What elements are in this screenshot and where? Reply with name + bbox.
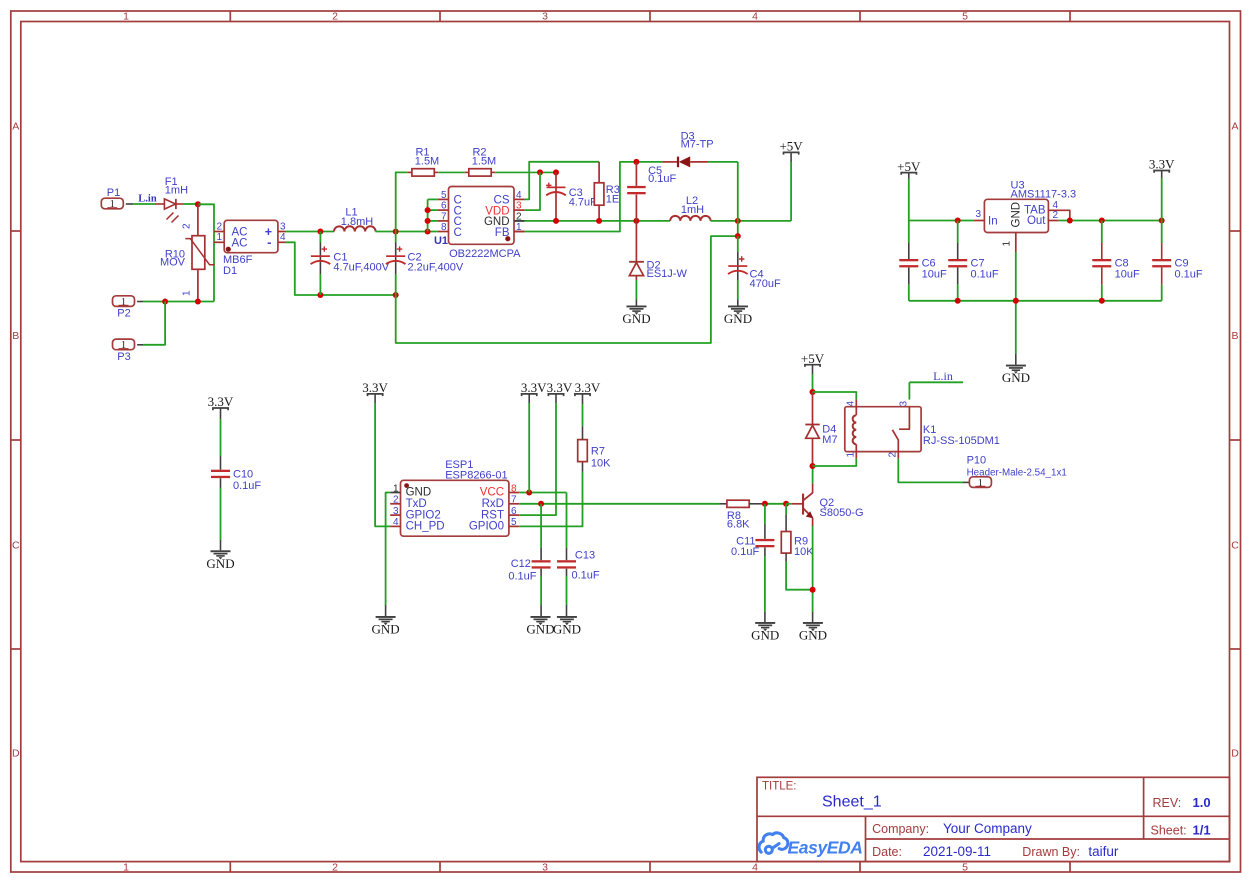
svg-text:3: 3	[975, 209, 981, 220]
svg-text:0.1uF: 0.1uF	[572, 570, 600, 582]
svg-text:4: 4	[845, 401, 856, 407]
svg-text:K1: K1	[923, 424, 936, 436]
svg-text:GND: GND	[751, 628, 779, 643]
svg-text:GPIO0: GPIO0	[469, 521, 504, 533]
svg-text:D: D	[12, 748, 20, 760]
svg-text:2021-09-11: 2021-09-11	[923, 844, 991, 859]
svg-text:Sheet_1: Sheet_1	[822, 794, 882, 811]
svg-text:GND: GND	[724, 311, 752, 326]
svg-text:3: 3	[542, 861, 548, 873]
svg-text:C13: C13	[575, 550, 595, 562]
svg-text:1: 1	[845, 452, 856, 458]
svg-text:10K: 10K	[794, 546, 814, 558]
svg-text:-: -	[267, 234, 271, 249]
svg-text:2: 2	[1053, 210, 1059, 221]
svg-text:M7: M7	[822, 434, 837, 446]
svg-text:GND: GND	[1002, 370, 1030, 385]
svg-text:2: 2	[216, 221, 222, 232]
svg-text:7: 7	[511, 495, 517, 506]
svg-text:4: 4	[516, 190, 522, 201]
svg-text:3: 3	[393, 506, 399, 517]
svg-text:P1: P1	[107, 187, 120, 199]
svg-text:5: 5	[511, 517, 517, 528]
svg-text:MOV: MOV	[160, 257, 186, 269]
svg-text:R7: R7	[591, 446, 605, 458]
svg-text:A: A	[1231, 121, 1238, 133]
svg-text:5: 5	[441, 190, 447, 201]
svg-text:1.5M: 1.5M	[415, 156, 439, 168]
svg-text:ES1J-W: ES1J-W	[647, 268, 688, 280]
svg-text:C10: C10	[233, 469, 253, 481]
svg-text:1: 1	[182, 290, 193, 296]
svg-text:GND: GND	[799, 628, 827, 643]
svg-text:GND: GND	[526, 622, 554, 637]
svg-text:2: 2	[332, 861, 338, 873]
svg-text:Sheet:: Sheet:	[1151, 824, 1187, 838]
svg-text:S8050-G: S8050-G	[820, 507, 864, 519]
svg-text:1: 1	[1002, 241, 1013, 247]
svg-text:GPIO2: GPIO2	[406, 509, 441, 521]
svg-text:GND: GND	[553, 622, 581, 637]
svg-text:P3: P3	[117, 351, 130, 363]
svg-text:1.5M: 1.5M	[472, 156, 496, 168]
svg-text:4.7uF: 4.7uF	[569, 196, 597, 208]
svg-text:0.1uF: 0.1uF	[508, 571, 536, 583]
svg-text:Company:: Company:	[872, 822, 929, 836]
svg-text:6: 6	[441, 201, 447, 212]
svg-text:A: A	[12, 121, 19, 133]
svg-text:RST: RST	[481, 509, 504, 521]
svg-text:ESP8266-01: ESP8266-01	[445, 469, 507, 481]
svg-text:1: 1	[123, 861, 129, 873]
svg-text:8: 8	[441, 222, 447, 233]
svg-text:5: 5	[962, 11, 968, 23]
svg-text:2: 2	[332, 11, 338, 23]
svg-text:C12: C12	[511, 558, 531, 570]
svg-text:4.7uF,400V: 4.7uF,400V	[333, 261, 389, 273]
svg-text:In: In	[988, 215, 998, 227]
svg-text:0.1uF: 0.1uF	[233, 480, 261, 492]
svg-text:0.1uF: 0.1uF	[971, 268, 999, 280]
svg-text:1.0: 1.0	[1193, 795, 1211, 810]
svg-text:10K: 10K	[591, 458, 611, 470]
svg-text:1: 1	[393, 483, 399, 494]
svg-text:D1: D1	[223, 265, 237, 277]
svg-text:4: 4	[752, 861, 758, 873]
svg-text:0.1uF: 0.1uF	[731, 546, 759, 558]
svg-text:taifur: taifur	[1088, 844, 1119, 859]
svg-text:+5V: +5V	[779, 139, 803, 154]
svg-text:B: B	[12, 330, 19, 342]
svg-text:+5V: +5V	[897, 159, 921, 174]
svg-text:0.1uF: 0.1uF	[648, 173, 676, 185]
svg-text:3: 3	[542, 11, 548, 23]
svg-text:3: 3	[899, 401, 910, 407]
svg-text:REV:: REV:	[1153, 796, 1182, 810]
svg-text:Out: Out	[1027, 215, 1046, 227]
svg-text:3.3V: 3.3V	[362, 380, 388, 395]
svg-text:4: 4	[752, 11, 758, 23]
svg-text:4: 4	[280, 232, 286, 243]
svg-text:1mH: 1mH	[681, 204, 704, 216]
svg-text:GND: GND	[406, 487, 432, 499]
svg-text:2.2uF,400V: 2.2uF,400V	[408, 261, 464, 273]
svg-text:3: 3	[516, 201, 522, 212]
svg-text:0.1uF: 0.1uF	[1175, 268, 1203, 280]
svg-text:1mH: 1mH	[165, 184, 188, 196]
svg-text:6.8K: 6.8K	[727, 518, 750, 530]
svg-text:CH_PD: CH_PD	[406, 521, 445, 533]
svg-text:6: 6	[511, 506, 517, 517]
svg-text:RxD: RxD	[482, 498, 504, 510]
svg-text:Date:: Date:	[872, 845, 902, 859]
svg-text:10uF: 10uF	[922, 268, 947, 280]
svg-text:B: B	[1231, 330, 1238, 342]
svg-text:GND: GND	[372, 622, 400, 637]
svg-text:5: 5	[962, 861, 968, 873]
svg-text:2: 2	[888, 452, 899, 458]
svg-text:P2: P2	[117, 308, 130, 320]
svg-text:GND: GND	[622, 311, 650, 326]
svg-text:GND: GND	[1011, 202, 1023, 228]
svg-text:1.8mH: 1.8mH	[341, 216, 373, 228]
svg-text:3.3V: 3.3V	[575, 380, 601, 395]
svg-text:C: C	[12, 540, 20, 552]
svg-text:U1: U1	[434, 235, 448, 247]
svg-text:GND: GND	[206, 556, 234, 571]
svg-text:TITLE:: TITLE:	[762, 781, 797, 793]
svg-text:1/1: 1/1	[1193, 823, 1211, 838]
svg-text:L.in: L.in	[933, 369, 953, 383]
svg-text:1E: 1E	[606, 194, 619, 206]
svg-text:D: D	[1231, 748, 1239, 760]
svg-text:P10: P10	[967, 455, 987, 467]
svg-text:AC: AC	[232, 238, 248, 250]
svg-text:8: 8	[511, 483, 517, 494]
svg-text:3.3V: 3.3V	[208, 394, 234, 409]
svg-text:2: 2	[182, 223, 193, 229]
svg-text:3.3V: 3.3V	[547, 380, 573, 395]
svg-text:7: 7	[441, 211, 447, 222]
svg-text:1: 1	[216, 232, 222, 243]
svg-text:Your Company: Your Company	[943, 821, 1032, 836]
svg-text:TxD: TxD	[406, 498, 427, 510]
svg-text:M7-TP: M7-TP	[681, 139, 714, 151]
svg-text:EasyEDA: EasyEDA	[788, 838, 863, 858]
svg-text:VCC: VCC	[480, 487, 504, 499]
svg-text:L.in: L.in	[138, 194, 157, 205]
svg-text:10uF: 10uF	[1115, 268, 1140, 280]
svg-text:4: 4	[393, 517, 399, 528]
svg-text:Header-Male-2.54_1x1: Header-Male-2.54_1x1	[967, 467, 1067, 478]
svg-text:C: C	[1231, 540, 1239, 552]
svg-text:3: 3	[280, 221, 286, 232]
svg-text:Drawn By:: Drawn By:	[1022, 845, 1080, 859]
svg-text:3.3V: 3.3V	[1149, 157, 1175, 172]
svg-text:1: 1	[123, 11, 129, 23]
svg-text:AMS1117-3.3: AMS1117-3.3	[1011, 189, 1077, 201]
svg-text:470uF: 470uF	[750, 278, 781, 290]
svg-text:C: C	[454, 227, 462, 239]
svg-text:+5V: +5V	[801, 351, 825, 366]
svg-text:RJ-SS-105DM1: RJ-SS-105DM1	[923, 435, 1000, 447]
svg-text:2: 2	[393, 495, 399, 506]
svg-text:3.3V: 3.3V	[521, 380, 547, 395]
svg-text:OB2222MCPA: OB2222MCPA	[449, 248, 521, 260]
